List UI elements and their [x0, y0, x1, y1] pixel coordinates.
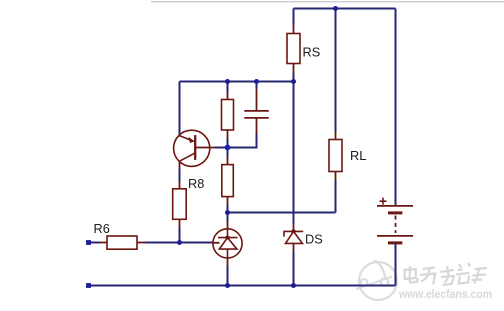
wire: regulator bottom lead [227, 258, 229, 266]
wire: R6 right lead to regulator [137, 242, 145, 244]
watermark chinese text [403, 263, 487, 285]
node: base / divider / capacitor junction [225, 145, 231, 151]
svg-text:DS: DS [305, 231, 323, 246]
wire: RL top lead up to top rail [335, 132, 337, 140]
node: mid rail / RS-DS junction [291, 79, 296, 84]
svg-text:RL: RL [350, 148, 366, 163]
resistor R8 [173, 189, 187, 220]
wire: upper divider resistor top lead [227, 82, 229, 93]
node: bottom rail / regulator junction [225, 283, 230, 288]
capacitor C1 [244, 111, 268, 118]
transistor Q1 [174, 130, 210, 166]
wire: left vertical down to transistor emitter [179, 82, 181, 136]
svg-text:www.elecfans.com: www.elecfans.com [398, 287, 492, 301]
resistor (unlabeled, lower divider) [222, 165, 234, 197]
transistor Q1 emitter arrowhead [188, 137, 194, 143]
shunt regulator D1 (circled diode) [213, 229, 242, 258]
wire: DS bottom lead [293, 243, 295, 251]
node: R8 / R6 junction [177, 240, 182, 245]
svg-text:R6: R6 [94, 221, 110, 236]
battery B1 [377, 206, 413, 243]
svg-text:R8: R8 [188, 176, 204, 191]
node: input terminal lower [86, 283, 91, 288]
wire: horizontal rail to RL [228, 212, 336, 214]
wire: RS top pin (maroon) [293, 25, 295, 34]
zener diode DS [284, 231, 303, 243]
wire: lower divider resistor top lead [227, 148, 229, 158]
wire: regulator top lead [227, 213, 229, 222]
wire: bottom rail [89, 285, 396, 287]
wire: right vertical from top rail down to battery [395, 9, 397, 206]
wire: DS vertical from mid rail down [293, 82, 295, 224]
wire: capacitor bottom lead [256, 118, 258, 134]
wire: mid rail [180, 81, 294, 83]
node: top rail / RL junction [333, 6, 338, 11]
wire: battery bottom lead [395, 243, 397, 286]
wire: RS bottom lead to mid rail [293, 73, 295, 82]
wire: top rail [294, 8, 396, 10]
faint top border line [151, 1, 504, 2]
node: regulator cathode dot [226, 236, 230, 239]
wire: input to R6 [89, 242, 100, 244]
svg-text:RS: RS [303, 45, 321, 60]
node: DS cathode dot [292, 230, 296, 233]
node: divider / RL rail junction [225, 210, 230, 215]
wire: lower divider resistor bottom lead [227, 197, 229, 205]
wire: capacitor top lead [256, 82, 258, 90]
wire: collector down to R8 [179, 161, 181, 169]
node: input terminal upper [86, 240, 91, 245]
node: mid rail / capacitor junction [254, 79, 259, 84]
watermark logo [357, 261, 398, 301]
wire: regulator reference pin (inside circle) [213, 242, 220, 244]
node: bottom rail / DS junction [291, 283, 296, 288]
resistor R6 [107, 236, 137, 249]
wire: R8 bottom lead [179, 219, 181, 227]
wire: RS bottom pin (maroon) [293, 64, 295, 74]
resistor RS [287, 34, 300, 64]
wire: RS top lead (blue part) [293, 9, 295, 26]
node: mid rail / upper divider junction [225, 79, 230, 84]
battery B1 plus sign [380, 198, 387, 205]
wire: RL bottom lead [335, 180, 337, 213]
wire: upper divider resistor bottom lead [227, 130, 229, 139]
resistor (unlabeled, upper divider) [222, 100, 234, 131]
wire: transistor base lead [195, 147, 214, 149]
resistor RL [329, 140, 342, 172]
